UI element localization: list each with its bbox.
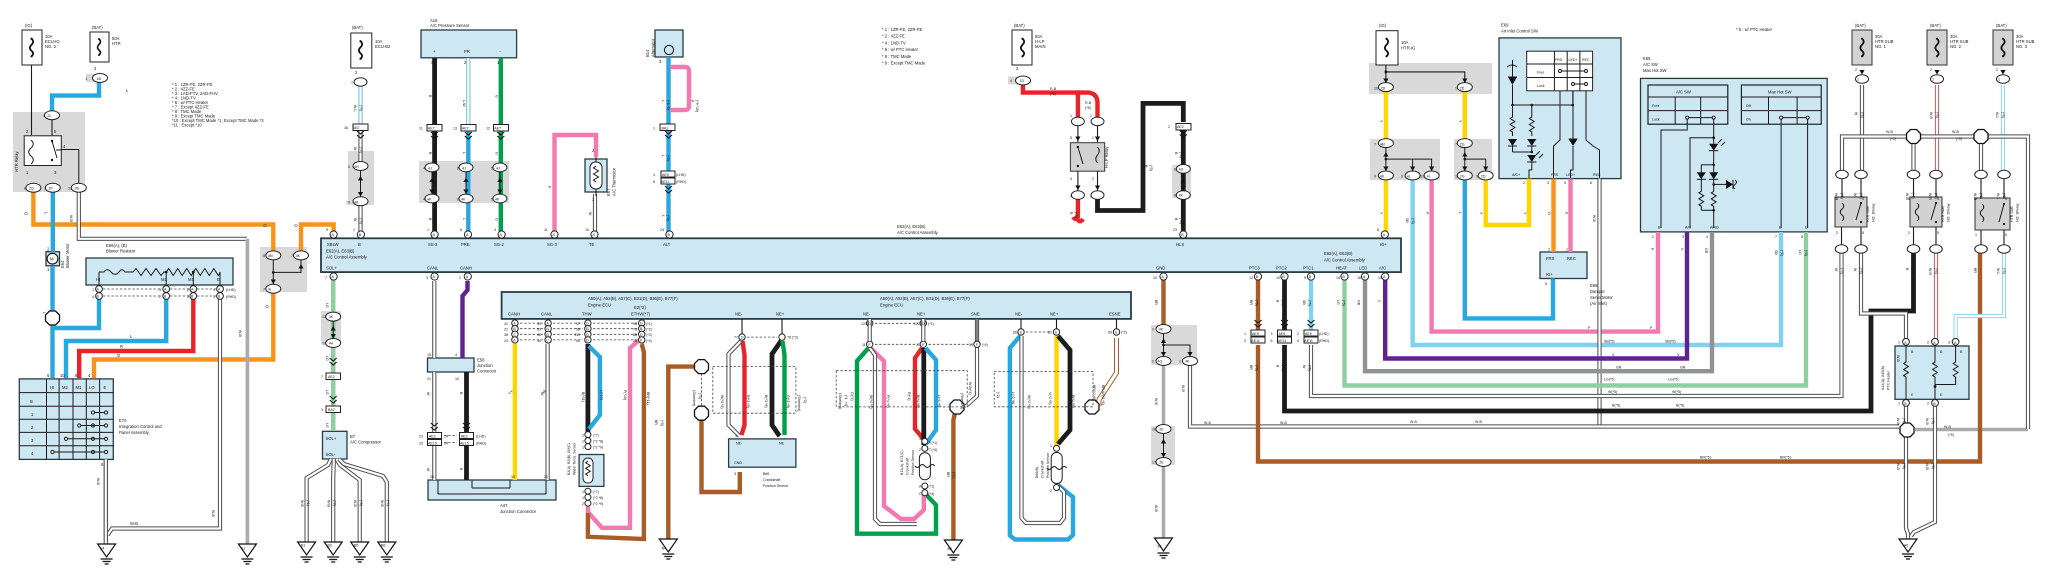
- svg-text:B66(B): B66(B): [1035, 467, 1039, 478]
- svg-text:9: 9: [1476, 175, 1478, 179]
- wire P 4L10 down and right to E65 B: [1432, 180, 1658, 332]
- svg-text:3: 3: [1948, 341, 1950, 345]
- wire B E58 to A47 pin9: [464, 372, 469, 480]
- svg-text:BR(*5): BR(*5): [1780, 456, 1791, 460]
- svg-text:1: 1: [1898, 341, 1900, 345]
- fuse 50A H-LP MAIN: [1012, 30, 1032, 65]
- ground E1 left: [238, 544, 256, 564]
- E68 damper servo motor box: [1540, 252, 1587, 279]
- E65 LED: [1709, 144, 1718, 151]
- E69 LED+ path: [1572, 91, 1574, 134]
- svg-text:(*5): (*5): [1085, 106, 1091, 110]
- svg-text:1: 1: [1050, 444, 1052, 448]
- svg-text:CANL: CANL: [427, 266, 439, 271]
- wire BR ETHW to water temp bottom: [588, 344, 644, 539]
- svg-text:88: 88: [633, 333, 637, 337]
- svg-text:97: 97: [576, 322, 580, 326]
- svg-text:AE2: AE2: [353, 126, 360, 130]
- svg-text:(*2): (*2): [996, 392, 1000, 398]
- svg-text:8: 8: [1174, 193, 1176, 197]
- svg-text:(LHD): (LHD): [676, 173, 686, 177]
- ovals fuse sub 1-3: [1856, 75, 1869, 84]
- svg-text:3: 3: [734, 472, 736, 476]
- svg-text:D: D: [741, 335, 744, 339]
- text GND column: [1152, 300, 1288, 513]
- svg-text:A/C Control Assembly: A/C Control Assembly: [1324, 258, 1366, 263]
- wire Y HTR-IG fuse to 2D ovals: [1385, 65, 1387, 83]
- ovals 4G 4K HLS: [1176, 165, 1190, 174]
- svg-text:41: 41: [504, 322, 508, 326]
- E65 maxhot E path: [1807, 119, 1809, 228]
- wire L resistor HI to junction: [54, 297, 99, 328]
- svg-text:3: 3: [1244, 339, 1246, 343]
- svg-text:(*5): (*5): [1308, 300, 1312, 306]
- svg-text:1: 1: [1836, 197, 1838, 201]
- svg-text:GR: GR: [1704, 248, 1708, 254]
- svg-text:40: 40: [576, 339, 580, 343]
- svg-text:G: G: [495, 152, 499, 155]
- ovals 4J 4K pressure rows: [425, 163, 439, 172]
- relay HTR SUB NO.1: [1835, 197, 1867, 227]
- svg-text:LG: LG: [325, 356, 329, 361]
- svg-text:(LHD): (LHD): [226, 288, 236, 292]
- svg-text:B(*5): B(*5): [1612, 404, 1620, 408]
- E69 table: [1527, 51, 1593, 91]
- svg-text:(*5): (*5): [1860, 112, 1864, 118]
- wire B NE+ bulge B66B: [1058, 336, 1070, 444]
- fuse ECU-IG NO.2: [22, 30, 42, 65]
- svg-text:11: 11: [544, 228, 548, 232]
- svg-text:1: 1: [582, 490, 584, 494]
- svg-text:PTC1: PTC1: [1303, 266, 1314, 271]
- svg-text:NO. 2Relay: NO. 2Relay: [1947, 203, 1951, 222]
- svg-text:1: 1: [1566, 248, 1568, 252]
- svg-text:AE3: AE3: [429, 434, 436, 438]
- wire W thermistor to TE: [593, 194, 597, 234]
- svg-text:(*5): (*5): [1179, 218, 1183, 224]
- svg-text:5: 5: [1545, 282, 1547, 286]
- svg-text:SB: SB: [1774, 250, 1778, 255]
- svg-text:D: D: [922, 322, 925, 326]
- svg-text:W: W: [1854, 112, 1858, 116]
- shade ECU-B2 col 4H/4K: [348, 151, 374, 205]
- svg-text:SB: SB: [1302, 300, 1306, 305]
- B14 alternator box: [655, 30, 683, 57]
- svg-text:MAIN: MAIN: [1035, 44, 1045, 49]
- svg-text:(*5): (*5): [1050, 92, 1056, 96]
- svg-text:5: 5: [491, 166, 493, 170]
- shade GND 2E: [1151, 426, 1175, 465]
- svg-text:BA1: BA1: [662, 127, 669, 131]
- svg-text:6: 6: [457, 166, 459, 170]
- NE circle rows B66: [739, 334, 745, 340]
- svg-text:W: W: [426, 468, 430, 472]
- svg-text:L: L: [661, 100, 665, 102]
- svg-text:7: 7: [1455, 142, 1457, 146]
- svg-text:BR-W(*2 *6): BR-W(*2 *6): [1101, 385, 1105, 405]
- E65 AIND path: [1713, 210, 1715, 228]
- svg-text:4: 4: [1297, 339, 1299, 343]
- svg-text:AE9: AE9: [1252, 332, 1259, 336]
- svg-text:NE-: NE-: [863, 312, 871, 317]
- relay HTR: [24, 136, 79, 183]
- svg-text:HTR SUB: HTR SUB: [1941, 206, 1945, 222]
- svg-text:2: 2: [919, 448, 921, 452]
- svg-text:M1: M1: [76, 385, 82, 390]
- svg-text:SOL-: SOL-: [326, 452, 336, 457]
- svg-text:2: 2: [1548, 248, 1550, 252]
- svg-text:(BAT): (BAT): [1014, 23, 1025, 28]
- ovals H-LP relay pins: [1071, 117, 1084, 126]
- E64 blower motor frame: [46, 252, 60, 266]
- svg-text:AE9: AE9: [1279, 332, 1286, 336]
- svg-text:2: 2: [1930, 68, 1932, 72]
- svg-text:6: 6: [653, 180, 655, 184]
- text E64 blower motor: [14, 151, 70, 268]
- svg-text:FRS: FRS: [1555, 58, 1563, 62]
- wire W-B 4K1 to right rail: [1190, 364, 1899, 427]
- svg-text:D: D: [586, 338, 589, 342]
- svg-text:LO: LO: [89, 385, 95, 390]
- svg-text:(*5): (*5): [1308, 365, 1312, 371]
- svg-text:AE3: AE3: [461, 434, 468, 438]
- svg-text:B3(A), B5(B), B9(C): B3(A), B5(B), B9(C): [567, 443, 571, 475]
- wire R-B branch 2: [1075, 93, 1098, 117]
- svg-text:E4: E4: [100, 547, 104, 551]
- svg-text:7: 7: [44, 187, 46, 191]
- svg-text:2: 2: [1855, 68, 1857, 72]
- svg-text:W-B: W-B: [238, 330, 242, 338]
- svg-text:W(*2 *9): W(*2 *9): [1027, 395, 1031, 409]
- svg-text:AE9: AE9: [1305, 332, 1312, 336]
- svg-text:Crankshaft: Crankshaft: [763, 478, 780, 482]
- svg-text:AE9: AE9: [662, 173, 669, 177]
- shade GND 4K/4Q: [1151, 325, 1197, 365]
- svg-text:11: 11: [419, 127, 423, 131]
- wire P E69 LED+ to E68 REC: [1568, 179, 1572, 252]
- svg-text:AE11: AE11: [661, 180, 670, 184]
- svg-text:1: 1: [582, 439, 584, 443]
- wire W HLP relay stubs: [1077, 125, 1079, 142]
- svg-text:1: 1: [1090, 114, 1092, 118]
- svg-text:4: 4: [1706, 235, 1708, 239]
- svg-text:GND: GND: [734, 461, 742, 465]
- svg-text:4K: 4K: [427, 197, 432, 201]
- svg-text:7: 7: [325, 276, 327, 280]
- wire B HLP relay to HLS: [1098, 103, 1184, 210]
- svg-text:GND: GND: [1156, 266, 1165, 271]
- svg-text:6: 6: [460, 228, 462, 232]
- svg-text:B3: B3: [328, 544, 332, 548]
- svg-text:(*5): (*5): [1931, 463, 1935, 469]
- svg-text:A50(A), A52(B), A57(C), B31(D): A50(A), A52(B), A57(C), B31(D), B36(E), …: [588, 296, 678, 301]
- svg-text:AE15: AE15: [460, 441, 469, 445]
- svg-text:Connector: Connector: [477, 369, 497, 374]
- svg-text:(BAT): (BAT): [92, 25, 103, 30]
- svg-text:4K: 4K: [1380, 175, 1385, 179]
- wire B NE+ bulge left B66: [772, 341, 781, 436]
- svg-text:E68: E68: [1590, 283, 1598, 288]
- svg-text:R(*1): R(*1): [907, 392, 911, 400]
- E69 FRS path: [1554, 91, 1561, 178]
- svg-text:3: 3: [1070, 177, 1072, 181]
- svg-text:(*5): (*5): [1890, 137, 1896, 141]
- svg-text:(*5): (*5): [1934, 268, 1938, 274]
- svg-text:16: 16: [1357, 276, 1361, 280]
- svg-text:B(*5): B(*5): [1676, 404, 1684, 408]
- wire L 2G1 to E68 pin5: [1465, 180, 1553, 318]
- svg-text:3: 3: [187, 295, 189, 299]
- svg-text:HTR Relay: HTR Relay: [14, 151, 19, 172]
- svg-text:4K: 4K: [1159, 328, 1164, 332]
- svg-text:3: 3: [2005, 197, 2007, 201]
- svg-text:L: L: [661, 155, 665, 157]
- ground B6: [378, 542, 396, 562]
- svg-text:1: 1: [1070, 194, 1072, 198]
- svg-text:4: 4: [494, 228, 496, 232]
- svg-text:E65: E65: [1643, 56, 1651, 61]
- svg-text:W-R: W-R: [1929, 112, 1933, 120]
- ovals 4M 4K 4L near SBLW: [266, 251, 281, 260]
- svg-text:12: 12: [322, 315, 326, 319]
- svg-text:Lock: Lock: [1652, 118, 1660, 122]
- NE circle rows B13: [867, 320, 873, 326]
- svg-text:59: 59: [1108, 331, 1112, 335]
- svg-text:(*2 *9): (*2 *9): [593, 445, 603, 449]
- svg-text:Y(*2 *8): Y(*2 *8): [1048, 392, 1052, 405]
- svg-text:REC: REC: [1582, 58, 1590, 62]
- svg-text:SG-2: SG-2: [494, 242, 504, 247]
- svg-text:W-B: W-B: [1592, 215, 1596, 223]
- svg-text:6: 6: [1590, 181, 1592, 185]
- text A16 pressure sensor: [419, 18, 502, 221]
- svg-text:R-B: R-B: [1085, 101, 1092, 105]
- E66 blower resistor box: [86, 258, 233, 285]
- svg-text:LG: LG: [325, 423, 329, 428]
- svg-text:4H: 4H: [329, 342, 334, 346]
- wire W fuse sub1 to relay1: [1860, 85, 1864, 171]
- svg-text:PTC Heater: PTC Heater: [1887, 370, 1891, 390]
- svg-text:1: 1: [1898, 402, 1900, 406]
- svg-text:4J: 4J: [496, 166, 500, 170]
- svg-text:W-B: W-B: [1886, 130, 1894, 134]
- connectors AE9 AE11 alternator: [661, 171, 675, 177]
- wire O 4L oval to E70 LO: [94, 293, 273, 378]
- svg-text:2: 2: [187, 288, 189, 292]
- svg-text:Crankshaft: Crankshaft: [906, 458, 910, 475]
- shield box B66: [713, 367, 796, 414]
- svg-text:W-B: W-B: [130, 521, 138, 526]
- E65 A/C SW table: [1648, 85, 1728, 124]
- svg-text:4: 4: [423, 166, 425, 170]
- wire W-B bus drop relay3: [1979, 143, 1983, 171]
- E70 grid: [19, 379, 113, 540]
- svg-text:A/C: A/C: [1379, 266, 1386, 271]
- wire L blower motor to E70 HI: [50, 266, 54, 378]
- svg-text:(*7): (*7): [593, 433, 599, 437]
- svg-text:W: W: [1302, 365, 1306, 369]
- ground B2: [944, 540, 962, 560]
- svg-text:(LHD): (LHD): [476, 434, 486, 438]
- svg-text:(IG): (IG): [25, 23, 33, 28]
- wire L PR below AE7 to PRE pin: [466, 128, 470, 234]
- svg-text:1B: 1B: [97, 77, 102, 81]
- svg-text:12: 12: [1249, 276, 1253, 280]
- E65 Max Hot table: [1741, 85, 1821, 124]
- svg-text:W-B: W-B: [1280, 421, 1288, 425]
- svg-text:(BAT): (BAT): [1996, 23, 2007, 28]
- svg-text:G: G: [495, 95, 499, 98]
- fuse 10A ECU-B2: [351, 33, 372, 68]
- svg-text:REC: REC: [1593, 173, 1601, 177]
- svg-text:D: D: [640, 333, 643, 337]
- shade HLS 4G/4K: [1172, 165, 1191, 198]
- svg-text:SB(*5): SB(*5): [1604, 340, 1615, 344]
- wire W-B bus top: [1842, 137, 2028, 430]
- svg-text:(*5): (*5): [359, 105, 363, 111]
- wire P E2 col to water temp sensor bottom: [588, 340, 641, 528]
- svg-text:1D: 1D: [1020, 79, 1025, 83]
- svg-text:4L: 4L: [1407, 175, 1411, 179]
- svg-text:7: 7: [291, 254, 293, 258]
- wire L resistor M2 to E70 M2: [66, 297, 166, 378]
- svg-text:W-B(*4): W-B(*4): [968, 382, 972, 395]
- svg-text:Blower Motor: Blower Motor: [65, 243, 70, 268]
- svg-text:(*5): (*5): [1902, 463, 1906, 469]
- svg-text:(*5): (*5): [666, 155, 670, 161]
- wire SB PTC1 to AE9: [1309, 276, 1313, 330]
- svg-text:Position Sensor: Position Sensor: [763, 484, 789, 488]
- wire W NE- to B66B shield inner: [1022, 336, 1065, 523]
- svg-text:5: 5: [491, 197, 493, 201]
- svg-text:SG-3: SG-3: [547, 242, 557, 247]
- E65 maxhot B path: [1780, 119, 1782, 228]
- svg-text:1: 1: [351, 81, 353, 85]
- svg-text:E62(A), E63(B): E62(A), E63(B): [1324, 251, 1353, 256]
- svg-text:E67: E67: [606, 188, 611, 196]
- alternator M circle: [664, 45, 673, 54]
- svg-text:2: 2: [1050, 489, 1052, 493]
- wire B THW col to water temp sensor: [586, 344, 591, 432]
- wire W-B B7 to ground B1: [307, 459, 331, 542]
- svg-text:W: W: [1853, 193, 1857, 197]
- svg-text:Integration Control and: Integration Control and: [119, 424, 162, 429]
- svg-text:LED+: LED+: [1569, 58, 1578, 62]
- wire B pressure sensor + to SS-3: [432, 58, 437, 234]
- shield box B13: [836, 371, 967, 407]
- svg-text:8: 8: [1377, 228, 1379, 232]
- svg-text:(*2): (*2): [333, 500, 337, 506]
- shield box B66B: [994, 372, 1093, 407]
- svg-text:D: D: [586, 333, 589, 337]
- svg-text:33: 33: [537, 328, 541, 332]
- wire W-B SNE to octagon: [966, 319, 977, 406]
- svg-text:NE+: NE+: [917, 312, 926, 317]
- svg-text:1: 1: [1244, 332, 1246, 336]
- svg-text:B7: B7: [350, 434, 356, 439]
- svg-text:PRE: PRE: [461, 242, 470, 247]
- wire L NE- to B66B bottom: [1010, 336, 1073, 540]
- svg-text:AE7: AE7: [462, 127, 469, 131]
- svg-text:3: 3: [1862, 197, 1864, 201]
- svg-text:HTR: HTR: [112, 41, 121, 46]
- svg-text:HI: HI: [50, 385, 54, 390]
- svg-text:W-B: W-B: [300, 500, 304, 508]
- svg-text:10: 10: [455, 377, 459, 381]
- svg-text:A6: A6: [1904, 544, 1908, 548]
- svg-text:IG+: IG+: [1380, 242, 1387, 247]
- svg-text:1: 1: [353, 228, 355, 232]
- svg-text:58: 58: [576, 328, 580, 332]
- svg-text:W-B: W-B: [1154, 505, 1158, 513]
- svg-text:W-B: W-B: [327, 500, 331, 508]
- wire L NE+ to B13 top: [926, 348, 937, 444]
- wire P NE- to B13 bottom: [871, 348, 924, 519]
- svg-text:HTR SUB: HTR SUB: [2010, 206, 2014, 222]
- svg-text:PR: PR: [464, 49, 470, 54]
- svg-text:A/C Control Assembly: A/C Control Assembly: [326, 255, 368, 260]
- svg-text:E1: E1: [1158, 545, 1162, 549]
- svg-text:HI: HI: [96, 277, 100, 282]
- engine ECU bar: [502, 292, 1131, 319]
- svg-text:(*5): (*5): [1411, 218, 1415, 224]
- svg-text:(*3): (*3): [698, 393, 702, 399]
- text PTC columns: [1244, 300, 1381, 371]
- wire stubs relays top: [1841, 178, 1843, 197]
- svg-text:(*5): (*5): [359, 147, 363, 153]
- svg-text:R: R: [1069, 212, 1073, 215]
- svg-text:46: 46: [537, 333, 541, 337]
- svg-text:W-B: W-B: [1154, 398, 1158, 406]
- svg-text:4: 4: [213, 288, 215, 292]
- svg-text:2E: 2E: [1159, 461, 1164, 465]
- svg-text:(*5): (*5): [2002, 268, 2006, 274]
- svg-text:(*2 *8): (*2 *8): [593, 496, 603, 500]
- svg-text:81: 81: [1048, 331, 1052, 335]
- svg-text:LG: LG: [1798, 250, 1802, 255]
- svg-text:AE15: AE15: [428, 441, 437, 445]
- svg-text:R: R: [120, 344, 123, 349]
- wire O relay 2Q to 4M oval: [33, 192, 273, 251]
- wire LG HEAT pin to E65 E: [1345, 232, 1807, 386]
- svg-text:Damper: Damper: [1590, 289, 1605, 294]
- svg-text:19: 19: [969, 343, 973, 347]
- svg-text:1: 1: [582, 445, 584, 449]
- wire W-B bus drop relay2: [1911, 143, 1915, 171]
- svg-text:4M: 4M: [1380, 142, 1385, 146]
- ovals 2Q 2F 2B: [26, 183, 41, 192]
- wire W relay1 to PTC heater 1A: [1861, 252, 1906, 341]
- svg-text:ALT: ALT: [663, 242, 671, 247]
- svg-text:NO. 1: NO. 1: [1875, 44, 1887, 49]
- svg-text:* 1 : 1ZR-FE, 2ZR-FE: * 1 : 1ZR-FE, 2ZR-FE: [882, 27, 922, 32]
- svg-text:* 5 : w/ PTC Heater: * 5 : w/ PTC Heater: [1736, 27, 1773, 32]
- wire W-L fuse ECU-B2 to AE2: [358, 86, 362, 124]
- A47 junction connector box: [428, 480, 556, 500]
- E69 REC path: [1586, 91, 1600, 178]
- svg-text:SNE: SNE: [971, 312, 980, 317]
- ovals SOL+ 4K 4H: [326, 312, 341, 321]
- svg-text:W-L: W-L: [1995, 112, 1999, 119]
- svg-text:4: 4: [653, 173, 655, 177]
- svg-text:M2: M2: [161, 277, 167, 282]
- svg-text:2: 2: [1168, 125, 1170, 129]
- svg-text:3: 3: [159, 288, 161, 292]
- E65 B pin path: [1661, 119, 1687, 228]
- svg-text:10A: 10A: [1401, 40, 1409, 45]
- svg-text:(*1): (*1): [929, 485, 935, 489]
- svg-text:24: 24: [660, 228, 664, 232]
